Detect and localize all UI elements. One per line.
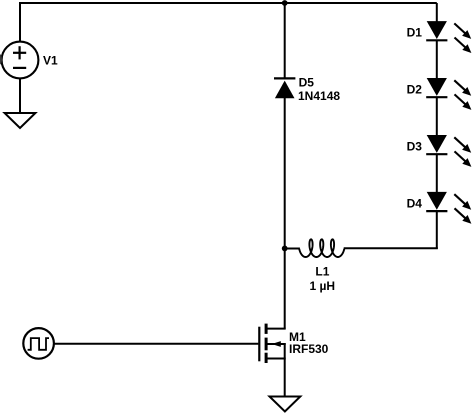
MOSFET M1 (259, 324, 285, 363)
svg-text:V1: V1 (43, 54, 58, 68)
wire: M1 source to ground (284, 359, 286, 397)
wire: top node down to D5 cathode (284, 3, 286, 79)
svg-text:D5: D5 (299, 76, 315, 90)
wire: D4 down to corner (436, 211, 438, 249)
svg-text:D3: D3 (407, 140, 423, 154)
LED D3 (426, 135, 471, 167)
LED D4 (426, 192, 471, 224)
svg-text:L1: L1 (315, 265, 329, 279)
wire: D5 anode down to L1 node (284, 98, 286, 250)
wire: D3 to D4 (436, 154, 438, 192)
svg-text:IRF530: IRF530 (289, 342, 329, 356)
diode D5 (274, 78, 295, 98)
voltage source V1 (2, 42, 39, 79)
wire: D2 to D3 (436, 97, 438, 135)
wire: V1 top to rail (19, 3, 21, 42)
svg-text:1 µH: 1 µH (310, 279, 336, 293)
inductor L1 (285, 239, 345, 257)
ground (V1) (5, 113, 36, 128)
wire: source to M1 gate (54, 343, 259, 345)
svg-text:D1: D1 (407, 26, 423, 40)
wire: rail drop to D1 (436, 3, 438, 22)
junction dot: L1 node (282, 246, 288, 252)
junction dot: top node (282, 0, 288, 6)
wire: D1 to D2 (436, 40, 438, 78)
wire: bottom right horizontal to L1 (344, 247, 438, 249)
svg-text:1N4148: 1N4148 (298, 89, 340, 103)
ground (M1) (270, 397, 301, 412)
svg-text:D4: D4 (407, 197, 423, 211)
LED D2 (426, 78, 471, 110)
wire: top rail (19, 2, 437, 4)
LED D1 (426, 21, 471, 53)
clipped blob at left edge (0, 54, 2, 65)
svg-text:D2: D2 (407, 83, 423, 97)
wire: L1 node down to M1 drain (284, 249, 286, 329)
square-wave source (23, 328, 54, 359)
wire: V1 bottom to ground (19, 78, 21, 113)
